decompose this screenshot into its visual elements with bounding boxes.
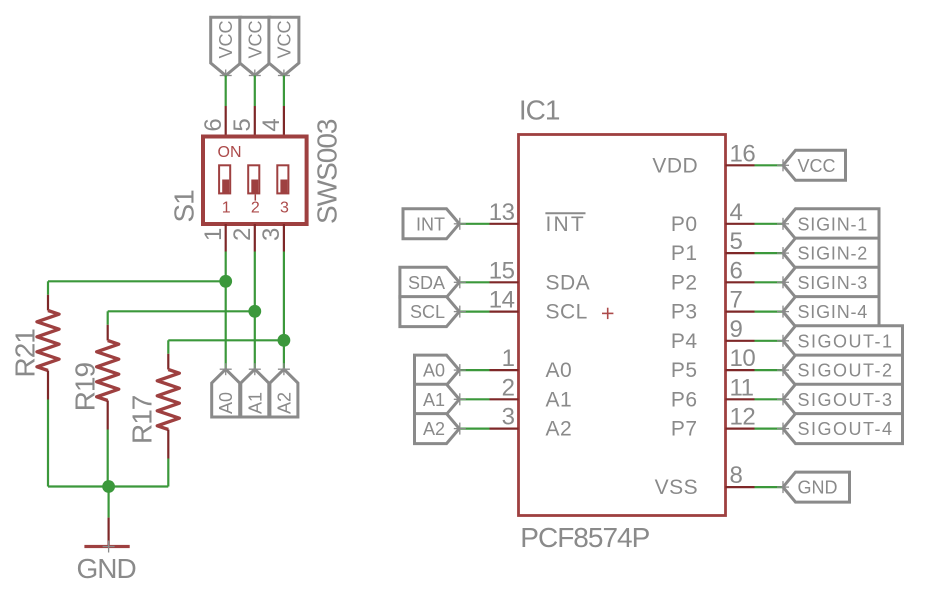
- ground symbol GND: [77, 541, 136, 585]
- svg-text:SIGOUT-3: SIGOUT-3: [798, 390, 894, 410]
- net flag SIGIN-4: [777, 297, 879, 327]
- svg-text:P4: P4: [671, 330, 698, 353]
- IC1 origin cross: [602, 312, 613, 314]
- IC1 pin 2: [460, 374, 519, 401]
- svg-text:1: 1: [200, 228, 227, 241]
- svg-text:A1: A1: [423, 390, 445, 410]
- svg-text:VDD: VDD: [652, 154, 698, 177]
- IC1 pin 15: [460, 257, 519, 284]
- svg-text:P1: P1: [671, 242, 698, 265]
- IC1 pin 3: [460, 404, 519, 431]
- svg-text:VCC: VCC: [798, 156, 836, 176]
- svg-text:INT: INT: [416, 214, 445, 234]
- S1 rocker 2: [248, 165, 259, 193]
- svg-text:3: 3: [258, 228, 285, 241]
- svg-text:10: 10: [730, 345, 756, 372]
- S1 rocker 2 stub: [254, 194, 256, 200]
- svg-text:PCF8574P: PCF8574P: [520, 522, 649, 553]
- net flag SIGIN-1: [777, 209, 879, 239]
- svg-text:A0: A0: [216, 392, 236, 414]
- IC1 pin 6: [726, 257, 784, 284]
- svg-text:5: 5: [730, 228, 743, 255]
- junction node A0: [219, 275, 232, 288]
- svg-text:IC1: IC1: [519, 95, 560, 126]
- svg-text:SIGIN-2: SIGIN-2: [798, 244, 869, 264]
- svg-text:13: 13: [489, 199, 515, 226]
- wire VCC flag to S1 pin 4: [283, 76, 285, 137]
- svg-text:4: 4: [258, 119, 285, 132]
- wire S1 pin 1 to node: [225, 224, 227, 281]
- svg-text:P6: P6: [671, 388, 698, 411]
- svg-text:SWS003: SWS003: [312, 119, 343, 224]
- wire node to resistor top: [48, 280, 226, 282]
- wire S1 pin 2 to node: [254, 224, 256, 311]
- svg-text:A1: A1: [245, 392, 265, 414]
- svg-text:12: 12: [730, 404, 756, 431]
- net flag SIGOUT-2: [777, 355, 903, 385]
- supply flag VCC (switch pin 5 net): [240, 17, 270, 81]
- IC1 pin 13: [460, 199, 519, 226]
- svg-text:6: 6: [730, 257, 743, 284]
- IC1 pin 5: [726, 228, 784, 255]
- svg-text:VCC: VCC: [245, 20, 265, 58]
- supply flag VCC (switch pin 6 net): [211, 17, 241, 81]
- svg-text:VCC: VCC: [274, 20, 294, 58]
- svg-text:A2: A2: [546, 418, 573, 441]
- resistor R21: [10, 281, 59, 486]
- svg-text:2: 2: [229, 228, 256, 241]
- switch S1 (SWS003 DIP-3) body: [203, 137, 307, 225]
- wire node to flag A1: [254, 311, 256, 369]
- junction node A2: [278, 334, 291, 347]
- svg-text:SCL: SCL: [546, 301, 588, 324]
- net flag INT: [403, 209, 466, 239]
- svg-text:7: 7: [730, 287, 743, 314]
- svg-text:R21: R21: [10, 329, 41, 378]
- svg-text:SIGIN-3: SIGIN-3: [798, 273, 869, 293]
- svg-text:VSS: VSS: [655, 476, 699, 499]
- svg-text:A2: A2: [274, 392, 294, 414]
- junction node GND bus: [102, 480, 115, 493]
- net flag SIGIN-2: [777, 238, 879, 268]
- svg-text:9: 9: [730, 316, 743, 343]
- IC1 pin 10: [726, 345, 784, 372]
- net flag SIGOUT-1: [777, 326, 903, 356]
- op-amp/IC U1 IC1 PCF8574P body: [519, 135, 726, 516]
- svg-text:ON: ON: [218, 144, 242, 161]
- svg-text:14: 14: [489, 287, 515, 314]
- net flag VCC: [777, 150, 846, 180]
- svg-text:1: 1: [502, 345, 515, 372]
- wire node to flag A0: [225, 281, 227, 369]
- wire S1 pin 3 to node: [283, 224, 285, 340]
- net flag A2: [270, 363, 298, 417]
- svg-text:SIGOUT-1: SIGOUT-1: [798, 331, 894, 351]
- junction node A1: [248, 305, 261, 318]
- svg-text:SIGIN-4: SIGIN-4: [798, 302, 869, 322]
- svg-text:R19: R19: [69, 363, 100, 412]
- S1 rocker 3: [277, 165, 288, 193]
- wire bus to GND: [107, 487, 109, 546]
- svg-text:11: 11: [730, 374, 754, 401]
- svg-text:SDA: SDA: [546, 271, 591, 294]
- wire VCC flag to S1 pin 6: [225, 76, 227, 137]
- svg-text:6: 6: [200, 119, 227, 132]
- svg-text:3: 3: [280, 200, 289, 217]
- IC1 pin 12: [726, 404, 784, 431]
- IC1 pin 14: [460, 287, 519, 314]
- svg-text:1: 1: [222, 200, 231, 217]
- net flag SIGOUT-3: [777, 384, 903, 414]
- net flag SIGIN-3: [777, 267, 879, 297]
- svg-text:A0: A0: [423, 361, 445, 381]
- svg-text:5: 5: [229, 119, 256, 132]
- svg-text:P0: P0: [671, 213, 698, 236]
- net flag SDA: [400, 267, 466, 297]
- net flag SIGOUT-4: [777, 414, 903, 444]
- svg-text:A1: A1: [546, 388, 573, 411]
- wire resistor bottoms bus: [48, 485, 168, 487]
- svg-text:S1: S1: [169, 190, 200, 223]
- net flag A2: [415, 414, 466, 444]
- svg-text:4: 4: [730, 199, 743, 226]
- wire VCC flag to S1 pin 5: [254, 76, 256, 137]
- net flag A0: [415, 355, 466, 385]
- resistor R19: [69, 311, 118, 486]
- net flag SCL: [400, 297, 466, 327]
- svg-text:2: 2: [502, 374, 515, 401]
- svg-text:SIGOUT-4: SIGOUT-4: [798, 419, 894, 439]
- svg-text:SIGIN-1: SIGIN-1: [798, 214, 869, 234]
- svg-text:P5: P5: [671, 359, 698, 382]
- svg-text:GND: GND: [77, 553, 136, 584]
- svg-text:A2: A2: [423, 419, 445, 439]
- svg-text:P7: P7: [671, 418, 698, 441]
- svg-text:15: 15: [489, 257, 515, 284]
- svg-text:SCL: SCL: [410, 302, 445, 322]
- IC1 pin 11: [726, 374, 784, 401]
- svg-text:8: 8: [730, 462, 743, 489]
- IC1 pin 7: [726, 287, 784, 314]
- wire node to flag A2: [283, 340, 285, 369]
- svg-text:VCC: VCC: [216, 20, 236, 58]
- svg-text:INT: INT: [546, 213, 586, 236]
- IC1 pin 8: [726, 462, 784, 489]
- svg-text:A0: A0: [546, 359, 573, 382]
- IC1 pin 16: [726, 140, 784, 167]
- svg-text:R17: R17: [127, 395, 158, 444]
- svg-text:3: 3: [502, 404, 515, 431]
- wire node to resistor top: [168, 339, 284, 341]
- IC1 pin 1: [460, 345, 519, 372]
- IC1 INT overline: [545, 212, 585, 214]
- IC1 pin 9: [726, 316, 784, 343]
- S1 rocker 1: [219, 165, 230, 193]
- net flag A1: [415, 384, 466, 414]
- svg-text:16: 16: [730, 140, 756, 167]
- svg-text:GND: GND: [798, 478, 838, 498]
- svg-text:P2: P2: [671, 271, 698, 294]
- svg-text:P3: P3: [671, 301, 698, 324]
- IC1 pin 4: [726, 199, 784, 226]
- supply flag VCC (switch pin 4 net): [269, 17, 299, 81]
- net flag A1: [241, 363, 269, 417]
- wire node to resistor top: [108, 310, 255, 312]
- net flag A0: [212, 363, 240, 417]
- svg-text:SDA: SDA: [408, 273, 445, 293]
- resistor R17: [127, 340, 180, 486]
- svg-text:SIGOUT-2: SIGOUT-2: [798, 361, 894, 381]
- net flag GND: [777, 472, 850, 502]
- svg-text:2: 2: [251, 200, 260, 217]
